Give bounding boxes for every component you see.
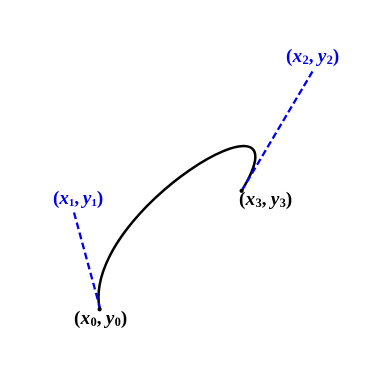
wire: dashed control line from (x3,y3) to (x2,y2)	[242, 72, 313, 192]
label (x1,y1)	[53, 189, 103, 208]
label (x0,y0)	[74, 309, 128, 328]
node (x3,y3)	[240, 189, 244, 193]
label (x2,y2)	[286, 47, 340, 66]
wire: dashed control line from (x0,y0) to (x1,y1)	[74, 213, 100, 310]
label (x3,y3)	[239, 190, 293, 209]
bezier curve from (x0,y0) to (x3,y3)	[98, 146, 255, 309]
node (x0,y0)	[98, 307, 102, 311]
